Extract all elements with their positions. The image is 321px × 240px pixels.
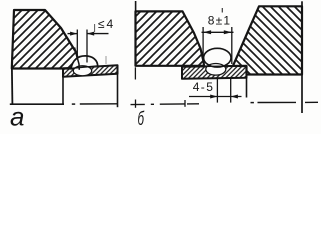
svg-text:а: а: [10, 102, 24, 132]
svg-text:б: б: [138, 109, 145, 130]
svg-text:≤4: ≤4: [98, 17, 115, 31]
svg-text:4-5: 4-5: [193, 80, 215, 94]
svg-text:8±1: 8±1: [208, 14, 232, 28]
